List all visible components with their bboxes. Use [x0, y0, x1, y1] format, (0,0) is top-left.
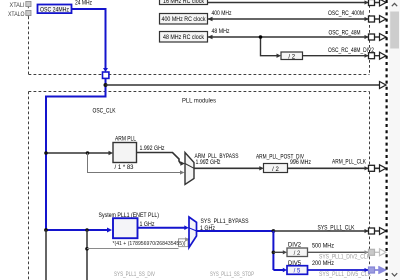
svg-text:1.992 GHz: 1.992 GHz — [196, 160, 221, 166]
svg-text:DIV5: DIV5 — [288, 261, 302, 267]
svg-text:/ 2: / 2 — [294, 251, 301, 257]
svg-text:XTALI: XTALI — [10, 3, 25, 9]
svg-text:/ 1 * 83: / 1 * 83 — [115, 165, 135, 171]
svg-text:OSC_CLK: OSC_CLK — [93, 109, 116, 115]
svg-text:400 MHz RC clock: 400 MHz RC clock — [162, 17, 207, 23]
svg-text:996 MHz: 996 MHz — [290, 160, 311, 166]
svg-text:OSC_RC_48M_DIV2: OSC_RC_48M_DIV2 — [328, 48, 375, 54]
svg-text:200 MHz: 200 MHz — [312, 261, 334, 267]
svg-text:PLL modules: PLL modules — [182, 98, 216, 105]
svg-text:SYS_PLL1_SS_STOP: SYS_PLL1_SS_STOP — [210, 272, 254, 278]
svg-text:1.992 GHz: 1.992 GHz — [140, 146, 165, 152]
svg-text:SYS_PLL1_DIV2_CLK: SYS_PLL1_DIV2_CLK — [319, 255, 370, 261]
svg-text:24 MHz: 24 MHz — [75, 1, 92, 7]
svg-text:OSC 24MHz: OSC 24MHz — [40, 7, 69, 13]
svg-text:400 MHz: 400 MHz — [212, 11, 232, 17]
svg-text:48 MHz RC clock: 48 MHz RC clock — [163, 35, 205, 41]
svg-text:OSC_RC_48M: OSC_RC_48M — [329, 31, 361, 37]
svg-text:48 MHz: 48 MHz — [212, 29, 230, 35]
svg-text:/ 2: / 2 — [272, 167, 279, 173]
svg-text:*(41 + (178956970/268435455)): *(41 + (178956970/268435455)) — [113, 241, 186, 247]
svg-text:XTALO: XTALO — [8, 12, 25, 18]
svg-text:SYS_PLL1_SS_DIV: SYS_PLL1_SS_DIV — [114, 272, 155, 278]
svg-text:ARM PLL: ARM PLL — [115, 137, 137, 143]
svg-text:ARM_PLL_CLK: ARM_PLL_CLK — [332, 159, 366, 165]
svg-text:DIV2: DIV2 — [288, 243, 302, 249]
svg-text:ARM_PLL_BYPASS: ARM_PLL_BYPASS — [195, 154, 239, 160]
svg-text:OSC_RC_400M: OSC_RC_400M — [328, 11, 364, 17]
svg-text:SYS_PLL1_CLK: SYS_PLL1_CLK — [318, 226, 355, 232]
svg-text:/ 2: / 2 — [288, 54, 295, 60]
svg-text:500 MHz: 500 MHz — [312, 243, 334, 249]
svg-text:16 MHz RC clock: 16 MHz RC clock — [163, 0, 205, 5]
svg-text:/ 5: / 5 — [294, 269, 301, 275]
svg-text:SYS_PLL1_BYPASS: SYS_PLL1_BYPASS — [201, 219, 249, 225]
svg-text:SYS_PLL1_DIV5_CLK: SYS_PLL1_DIV5_CLK — [319, 272, 371, 278]
